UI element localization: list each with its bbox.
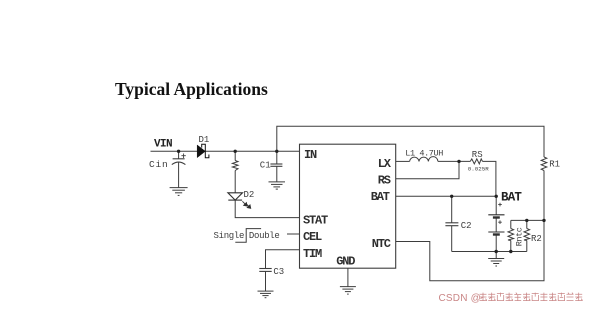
- inductor L1: [410, 157, 438, 162]
- svg-text:C2: C2: [461, 221, 472, 231]
- wire switch step: [235, 229, 261, 243]
- svg-text:Double: Double: [249, 231, 280, 241]
- plus sign Cin: [181, 154, 185, 159]
- svg-text:D1: D1: [199, 135, 210, 145]
- wire ground stub under battery: [495, 252, 497, 259]
- ground under battery: [488, 259, 504, 267]
- junction dot Cin tap: [177, 150, 180, 153]
- wire Cin branch: [178, 151, 180, 187]
- wire RS resistor to BAT node: [483, 161, 496, 196]
- svg-text:RS: RS: [378, 173, 391, 187]
- wire right rail below R1: [396, 171, 544, 281]
- svg-text:L1 4.7UH: L1 4.7UH: [405, 149, 443, 159]
- svg-text:C1: C1: [260, 160, 271, 170]
- junction dot node A L1/RS: [457, 160, 460, 163]
- junction dot C1 tap: [275, 150, 278, 153]
- plus sign battery cell2: [498, 220, 502, 224]
- wire main input VIN rail: [151, 150, 300, 152]
- junction dot C2 tap: [450, 195, 453, 198]
- svg-text:D2: D2: [244, 190, 255, 200]
- wire CEL: [287, 233, 300, 235]
- junction dot Rntc bottom: [509, 250, 512, 253]
- ground under C3: [258, 291, 274, 298]
- wire NTC divider top: [511, 219, 544, 221]
- svg-text:BAT: BAT: [371, 190, 390, 204]
- svg-text:RS: RS: [472, 150, 483, 160]
- svg-text:Cin: Cin: [149, 159, 169, 170]
- svg-text:0.025R: 0.025R: [468, 166, 489, 173]
- junction dot rail at divider: [542, 219, 545, 222]
- wire LED branch vertical: [235, 151, 299, 217]
- LED D2: [228, 193, 243, 200]
- svg-text:LX: LX: [378, 157, 392, 171]
- svg-text:NTC: NTC: [372, 237, 391, 251]
- wire C1 branch: [276, 151, 278, 182]
- svg-text:Rntc: Rntc: [515, 227, 525, 246]
- svg-text:CSDN @: CSDN @: [439, 293, 481, 304]
- wire bottom ground rail: [452, 251, 527, 253]
- svg-text:GND: GND: [336, 255, 355, 269]
- svg-text:R1: R1: [549, 160, 560, 170]
- ground under C1: [269, 182, 286, 189]
- resistor Rntc: [508, 229, 514, 241]
- wire GND pin stub: [347, 268, 349, 286]
- svg-text:Single: Single: [214, 231, 245, 241]
- wire Rntc vertical: [510, 220, 512, 251]
- junction dot LED branch: [234, 150, 237, 153]
- resistor above LED: [232, 161, 238, 171]
- ground under GND pin: [340, 287, 356, 295]
- wire R2 vertical: [526, 220, 528, 251]
- capacitor C3: [259, 269, 271, 272]
- svg-text:BAT: BAT: [501, 190, 522, 204]
- wire battery bottom: [495, 235, 497, 252]
- wire BAT pin rail: [396, 195, 497, 197]
- wire TIM to C3: [266, 250, 300, 291]
- wire battery middle: [495, 218, 497, 233]
- svg-text:STAT: STAT: [303, 213, 328, 227]
- wire C2 branch: [451, 196, 453, 251]
- junction dot battery top: [495, 195, 498, 198]
- svg-text:VIN: VIN: [154, 139, 172, 151]
- resistor RS horizontal: [470, 159, 482, 164]
- capacitor C1: [270, 164, 282, 166]
- IC U1 body: [300, 144, 396, 268]
- watermark CSDN: [439, 293, 583, 304]
- LED D2 arrows: [242, 201, 250, 208]
- capacitor Cin: [172, 159, 186, 165]
- battery BT1: [488, 215, 504, 235]
- capacitor C2: [445, 223, 458, 226]
- ground under Cin: [170, 188, 188, 196]
- wire RS pin sense: [396, 161, 459, 178]
- svg-text:IN: IN: [304, 148, 317, 162]
- plus sign battery cell1: [498, 203, 502, 207]
- wire battery top: [495, 196, 497, 215]
- junction dot R2 top: [525, 219, 528, 222]
- junction dot battery bottom: [495, 250, 498, 253]
- wire L1 to RS resistor: [438, 160, 470, 162]
- resistor R2: [524, 229, 530, 241]
- wire LX to L1: [396, 160, 410, 162]
- svg-text:C3: C3: [273, 267, 284, 277]
- svg-text:TIM: TIM: [303, 247, 322, 261]
- svg-text:CEL: CEL: [303, 230, 322, 244]
- svg-text:Typical Applications: Typical Applications: [115, 79, 268, 99]
- svg-text:R2: R2: [531, 234, 542, 244]
- wire top rail to R1: [277, 126, 544, 157]
- resistor R1: [541, 157, 547, 171]
- diode D1 (schottky): [197, 144, 209, 158]
